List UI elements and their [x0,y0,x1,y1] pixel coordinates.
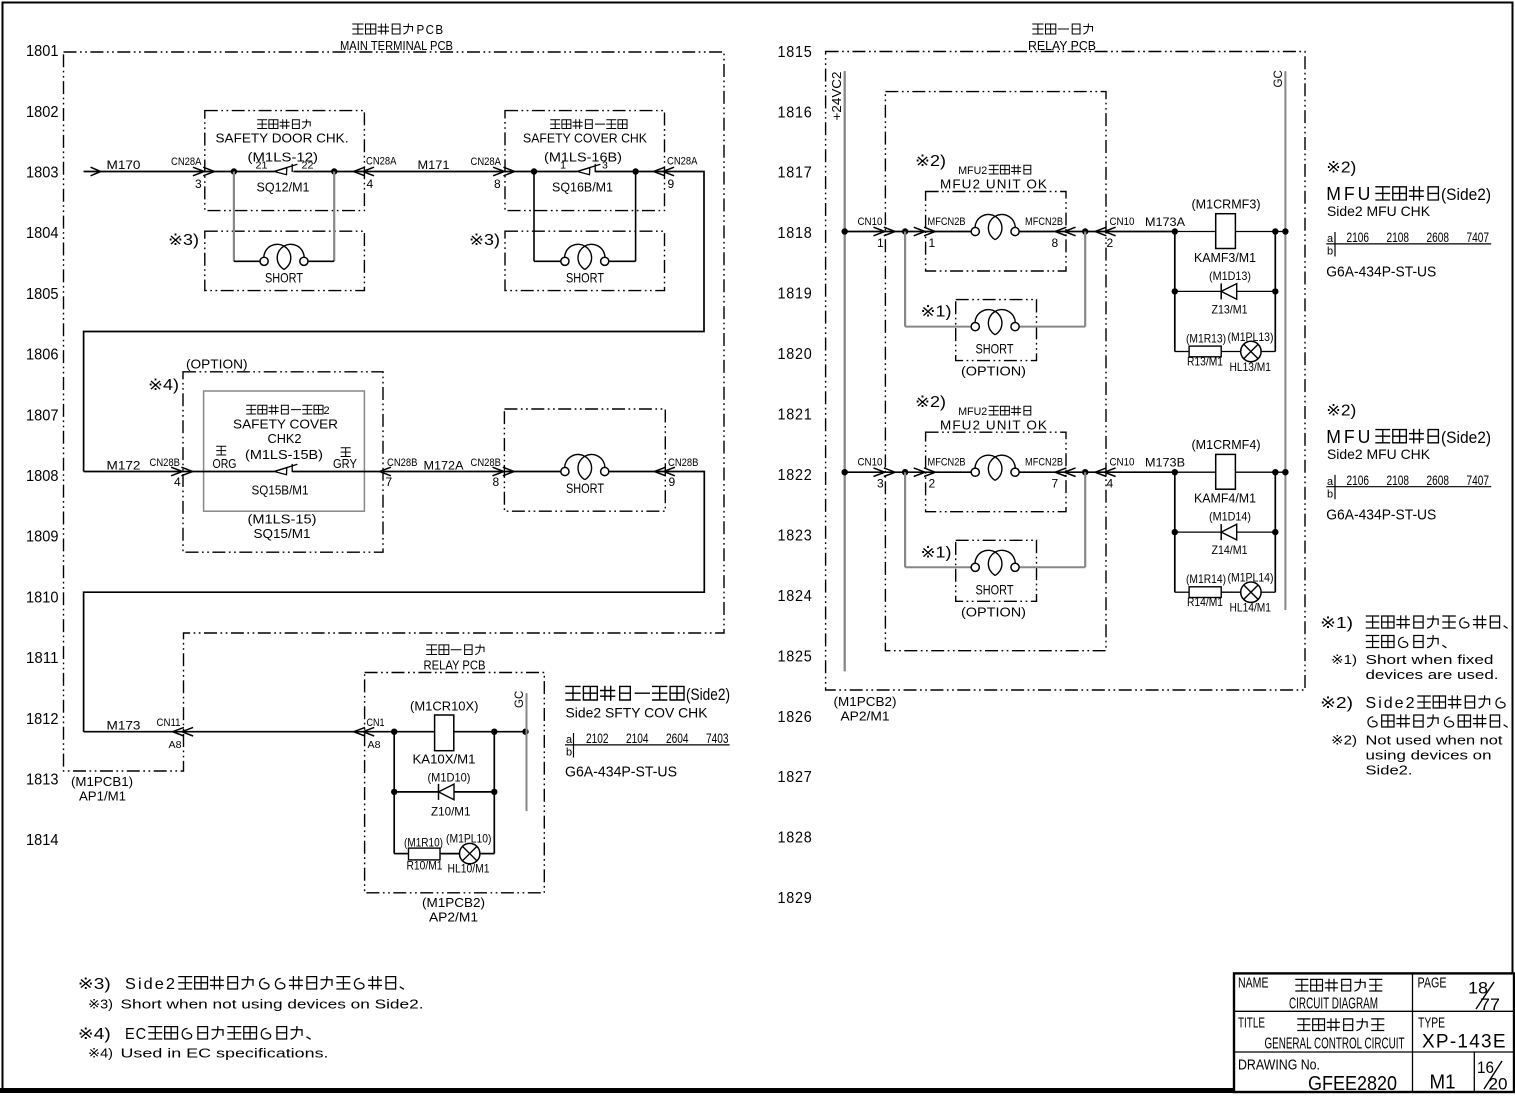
svg-text:※1): ※1) [921,304,952,321]
wire through SQ12 [205,171,274,173]
svg-text:M171: M171 [418,160,450,172]
svg-text:CN28B: CN28B [471,457,502,469]
svg-text:(M1PCB1): (M1PCB1) [71,775,133,789]
svg-text:Side2: Side2 [125,976,177,993]
resistor R13/M1 [1175,351,1189,353]
jumper wires SQ16B short [533,172,535,262]
svg-text:CN28B: CN28B [387,457,418,469]
svg-text:b: b [566,747,572,759]
wire M170 row 1803 [84,171,205,173]
svg-text:1826: 1826 [778,709,813,726]
svg-text:4: 4 [367,177,374,191]
diode Z13/M1 row [1175,290,1276,292]
svg-text:1816: 1816 [778,104,813,121]
svg-text:Short when fixed: Short when fixed [1366,652,1494,667]
safety cover chk box (M1LS-16B) [505,111,665,211]
svg-text:CN28A: CN28A [471,156,502,168]
svg-text:M170: M170 [107,160,141,172]
svg-text:GC: GC [514,691,526,708]
svg-text:NAME: NAME [1238,975,1269,992]
svg-text:Z14/M1: Z14/M1 [1212,543,1248,557]
svg-text:※4): ※4) [78,1026,111,1043]
svg-text:7407: 7407 [1467,472,1490,488]
svg-text:(Side2): (Side2) [1441,185,1491,204]
svg-text:(M1D13): (M1D13) [1209,269,1251,283]
svg-text:7: 7 [1052,477,1059,491]
svg-text:7403: 7403 [706,730,729,746]
svg-text:3: 3 [195,177,202,191]
svg-text:(OPTION): (OPTION) [186,358,248,372]
svg-text:9: 9 [669,475,676,489]
svg-text:1806: 1806 [26,347,59,364]
svg-text:※2): ※2) [915,394,946,411]
connector CN28A pin 9 [654,167,665,176]
svg-text:Used in EC specifications.: Used in EC specifications. [121,1046,329,1061]
svg-text:MFCN2B: MFCN2B [1025,457,1063,469]
svg-text:GENERAL CONTROL CIRCUIT: GENERAL CONTROL CIRCUIT [1265,1036,1405,1053]
jumper leads (gray) [904,232,906,327]
title block [1234,973,1514,1092]
svg-text:A8: A8 [368,739,381,751]
svg-text:AP1/M1: AP1/M1 [79,790,126,804]
node branch right [1272,469,1278,475]
svg-text:(M1D10): (M1D10) [428,771,471,785]
diode Z14/M1 row [1175,531,1276,533]
wire M173B [1106,471,1175,473]
svg-text:2608: 2608 [1427,229,1450,245]
connector CN28A pin 4 [354,167,365,176]
svg-text:devices are used.: devices are used. [1366,667,1499,682]
svg-text:CN1: CN1 [367,717,385,729]
svg-text:Short when not using devices o: Short when not using devices on Side2. [121,997,424,1012]
svg-text:a: a [566,734,573,746]
svg-text:(OPTION): (OPTION) [961,605,1026,619]
svg-text:G6A-434P-ST-US: G6A-434P-ST-US [1326,506,1436,523]
svg-text:1821: 1821 [778,407,813,424]
svg-text:MFCN2B: MFCN2B [928,457,966,469]
svg-text:21: 21 [256,160,268,172]
svg-text:※4): ※4) [148,377,179,394]
svg-text:MFU2: MFU2 [958,406,987,418]
svg-text:(M1PCB2): (M1PCB2) [422,896,485,910]
svg-text:※3): ※3) [78,976,111,993]
svg-text:CN10: CN10 [1110,216,1135,228]
svg-text:1815: 1815 [778,44,813,61]
svg-text:4: 4 [1107,477,1114,491]
svg-text:2: 2 [1107,236,1114,250]
wire M172 row 1808 [84,471,183,473]
GC bus (left relay) [526,693,528,811]
svg-text:PAGE: PAGE [1418,975,1447,992]
safety cover chk2 box (M1LS-15B) gray [204,391,365,511]
node SQ12 right junction [331,168,337,174]
SHORT jumper symbol (SQ16B) [561,257,569,265]
svg-text:※2): ※2) [1320,695,1353,712]
svg-text:(M1R13): (M1R13) [1186,332,1226,346]
svg-text:2106: 2106 [1347,229,1370,245]
wire M172A [383,471,504,473]
node MFU left branch [902,228,908,234]
svg-text:GC: GC [1273,70,1285,87]
connector CN10 pin 3 [874,468,885,477]
svg-text:3: 3 [602,160,608,172]
svg-text:1827: 1827 [778,769,813,786]
svg-text:EC: EC [125,1026,147,1043]
svg-text:Not used when not: Not used when not [1366,733,1503,748]
svg-text:MFU2 UNIT OK: MFU2 UNIT OK [940,178,1048,192]
node MFU left branch [902,469,908,475]
node branch left [1172,228,1178,234]
svg-text:77: 77 [1480,995,1500,1014]
svg-text:2: 2 [324,405,330,417]
svg-text:1807: 1807 [26,407,59,424]
wire CN10 row (M173B) [845,471,886,473]
node on GC bus [1282,469,1288,475]
MFU2 unit box [926,432,1066,512]
relay PCB header (left) [427,645,484,655]
svg-text:TITLE: TITLE [1238,1015,1265,1032]
svg-text:1803: 1803 [26,165,59,182]
svg-text:9: 9 [668,177,675,191]
svg-text:MFCN2B: MFCN2B [928,216,966,228]
svg-text:MFU2: MFU2 [958,165,987,177]
svg-text:1808: 1808 [26,468,59,485]
svg-text:(M1LS-15B): (M1LS-15B) [245,448,323,462]
svg-text:(M1CR10X): (M1CR10X) [410,699,479,714]
svg-text:(M1D14): (M1D14) [1209,510,1251,524]
svg-text:1809: 1809 [26,529,59,546]
svg-text:HL13/M1: HL13/M1 [1230,360,1272,374]
svg-text:TYPE: TYPE [1418,1015,1445,1032]
svg-text:1819: 1819 [778,286,813,303]
switch SQ12/M1 pins 21-22 [274,168,287,175]
MFU2 unit jumper symbol [926,231,972,233]
svg-text:2: 2 [929,477,936,491]
svg-text:GRY: GRY [333,457,358,471]
svg-text:R13/M1: R13/M1 [1187,355,1223,369]
svg-text:DRAWING No.: DRAWING No. [1238,1057,1320,1074]
svg-text:(M1LS-15): (M1LS-15) [248,513,317,527]
svg-text:1812: 1812 [26,711,59,728]
resistor R14/M1 [1175,591,1189,593]
svg-text:PCB: PCB [417,23,445,37]
svg-text:CN10: CN10 [1110,457,1135,469]
svg-text:1801: 1801 [26,43,59,60]
svg-text:※3): ※3) [168,232,199,249]
svg-text:using devices on: using devices on [1366,748,1492,763]
arrow into M170 [91,167,101,176]
svg-text:MFU2 UNIT OK: MFU2 UNIT OK [940,419,1048,433]
svg-text:2104: 2104 [626,730,649,746]
node on GC bus [522,729,528,735]
svg-text:Side2 MFU CHK: Side2 MFU CHK [1327,446,1431,462]
node branch left [1172,469,1178,475]
svg-text:8: 8 [493,475,500,489]
svg-text:1811: 1811 [26,650,59,667]
svg-text:HL10/M1: HL10/M1 [448,862,490,876]
svg-text:(M1CRMF4): (M1CRMF4) [1192,437,1261,452]
svg-text:SHORT: SHORT [566,270,604,286]
svg-text:M172A: M172A [424,461,464,473]
svg-text:(Side2): (Side2) [686,685,730,704]
switch SQ15B/M1 [274,468,287,475]
svg-text:CN10: CN10 [858,457,883,469]
svg-text:XP-143E: XP-143E [1422,1032,1506,1053]
svg-text:AP2/M1: AP2/M1 [429,911,478,925]
svg-text:※2): ※2) [1331,733,1357,748]
svg-text:20: 20 [1489,1075,1508,1094]
svg-text:7407: 7407 [1467,229,1490,245]
svg-text:1813: 1813 [26,772,59,789]
svg-text:SAFETY COVER CHK: SAFETY COVER CHK [523,132,648,146]
svg-text:SQ15/M1: SQ15/M1 [254,527,311,541]
wire through SQ16B [505,171,577,173]
connector CN10 pin 2 [1095,227,1106,236]
svg-text:1820: 1820 [778,346,813,363]
svg-text:CHK2: CHK2 [268,432,302,446]
svg-text:2102: 2102 [586,730,609,746]
svg-text:8: 8 [1052,236,1059,250]
main terminal PCB boundary (M1PCB1) [64,52,725,771]
switch SQ16B/M1 pins 1-3 [577,168,590,175]
svg-text:SHORT: SHORT [566,480,604,496]
connector CN28B pin 9 [654,467,665,476]
svg-text:Z13/M1: Z13/M1 [1212,302,1248,316]
svg-text:CIRCUIT DIAGRAM: CIRCUIT DIAGRAM [1289,996,1378,1013]
svg-text:KAMF4/M1: KAMF4/M1 [1194,491,1256,506]
svg-text:MFU: MFU [1326,184,1373,204]
wire row1803 pin9 to row1808 M172 (L path) [84,172,704,472]
svg-text:2604: 2604 [666,730,689,746]
MFU2 unit box [926,192,1066,272]
wire M173A [1106,231,1175,233]
svg-text:2108: 2108 [1387,472,1410,488]
svg-text:7: 7 [386,475,393,489]
svg-text:A8: A8 [169,739,182,751]
diode Z10/M1 row [394,791,494,793]
svg-text:CN10: CN10 [858,216,883,228]
svg-text:Z10/M1: Z10/M1 [431,805,471,819]
svg-text:(M1PCB2): (M1PCB2) [834,695,897,709]
node branch right [491,729,497,735]
safety door chk box (M1LS-12) [205,111,365,211]
node SQ16B right junction [632,168,638,174]
svg-text:1: 1 [560,160,566,172]
SHORT jumper symbol (option) [971,563,979,571]
svg-text:CN28B: CN28B [150,457,181,469]
svg-text:M173A: M173A [1145,217,1185,229]
svg-text:M173: M173 [107,721,141,733]
node MFU right branch [1082,469,1088,475]
svg-text:1825: 1825 [778,648,813,665]
svg-text:CN11: CN11 [157,717,181,729]
GC bus (right relay) [1284,71,1286,610]
svg-text:Side2.: Side2. [1366,763,1413,778]
svg-text:R10/M1: R10/M1 [407,859,443,873]
svg-text:(M1CRMF3): (M1CRMF3) [1192,197,1261,212]
svg-text:Side2 SFTY COV CHK: Side2 SFTY COV CHK [566,705,709,721]
svg-text:1802: 1802 [26,104,59,121]
node branch left [391,729,397,735]
svg-text:CN28A: CN28A [366,156,397,168]
connector CN28B pin 7 [380,467,391,476]
MFU2 unit jumper symbol [926,471,972,473]
SHORT jumper symbol (M172A) [561,467,569,475]
svg-text:※1): ※1) [921,544,952,561]
svg-text:2106: 2106 [1347,472,1370,488]
svg-text:※1): ※1) [1320,615,1353,632]
svg-text:SQ15B/M1: SQ15B/M1 [252,484,309,498]
node SQ16B left junction [531,168,537,174]
svg-text:1818: 1818 [778,225,813,242]
svg-text:1829: 1829 [778,890,813,907]
svg-text:※2): ※2) [1326,402,1356,419]
svg-text:1823: 1823 [778,527,813,544]
connector CN10 pin 1 [874,227,885,236]
svg-text:+24VC2: +24VC2 [830,71,844,120]
svg-text:4: 4 [174,475,181,489]
svg-text:※3): ※3) [88,997,113,1012]
svg-text:1: 1 [929,236,936,250]
jumper leads (gray) [904,472,906,567]
relay PCB header (right) [1033,24,1093,34]
svg-text:G6A-434P-ST-US: G6A-434P-ST-US [565,764,677,781]
svg-text:ORG: ORG [213,457,237,471]
node branch right [1272,228,1278,234]
svg-text:KAMF3/M1: KAMF3/M1 [1194,250,1256,265]
branch verticals [1174,232,1176,352]
svg-text:HL14/M1: HL14/M1 [1230,601,1272,615]
svg-text:1805: 1805 [26,286,59,303]
+24VC2 bus [844,71,846,671]
svg-text:M1: M1 [1430,1072,1456,1094]
svg-text:KA10X/M1: KA10X/M1 [413,752,476,767]
wire M171 [364,171,505,173]
SHORT jumper symbol (SQ12) [260,257,268,265]
svg-text:2108: 2108 [1387,229,1410,245]
Side2 SFTY COV CHK note block [566,686,684,700]
main terminal PCB header [353,24,413,34]
svg-text:Side2: Side2 [1366,695,1417,712]
svg-text:(OPTION): (OPTION) [961,365,1026,379]
svg-text:MFCN2B: MFCN2B [1025,216,1063,228]
relay PCB boundary (right) [826,52,1305,691]
branch verticals [1174,472,1176,592]
svg-text:b: b [1327,246,1333,258]
svg-text:SQ12/M1: SQ12/M1 [257,181,310,195]
svg-text:CN28A: CN28A [171,156,202,168]
short box row 1808 [504,409,665,511]
svg-text:※4): ※4) [88,1046,113,1061]
svg-text:1822: 1822 [778,467,813,484]
svg-text:1814: 1814 [26,832,59,849]
svg-text:b: b [1327,488,1333,500]
svg-text:3: 3 [877,477,884,491]
svg-text:M172: M172 [107,461,141,473]
node SQ12 left junction [231,168,237,174]
svg-text:MAIN TERMINAL PCB: MAIN TERMINAL PCB [340,39,453,53]
svg-text:22: 22 [302,160,314,172]
svg-text:1817: 1817 [778,165,813,182]
svg-text:G6A-434P-ST-US: G6A-434P-ST-US [1326,264,1436,281]
svg-text:SAFETY COVER: SAFETY COVER [233,418,338,432]
svg-text:a: a [1327,233,1334,245]
svg-text:※3): ※3) [469,232,500,249]
svg-text:a: a [1327,476,1334,488]
svg-text:CN28B: CN28B [668,457,699,469]
node on +24VC2 bus [842,469,848,475]
svg-text:※2): ※2) [1326,160,1356,177]
svg-text:R14/M1: R14/M1 [1187,595,1223,609]
svg-text:(Side2): (Side2) [1441,428,1491,447]
relay PCB boundary box (M1PCB2 left) [365,673,545,893]
svg-text:CN28A: CN28A [667,156,698,168]
svg-text:SHORT: SHORT [265,270,303,286]
wire CN10 row (M173A) [845,231,886,233]
svg-text:SAFETY DOOR CHK.: SAFETY DOOR CHK. [216,132,349,146]
svg-text:M173B: M173B [1145,458,1185,470]
svg-text:(M1R14): (M1R14) [1186,572,1226,586]
svg-text:SHORT: SHORT [976,341,1014,357]
branch verticals [393,732,395,854]
svg-text:1810: 1810 [26,589,59,606]
svg-text:AP2/M1: AP2/M1 [841,710,890,724]
svg-text:1828: 1828 [778,830,813,847]
svg-text:1: 1 [877,236,884,250]
svg-text:※1): ※1) [1331,652,1357,667]
jumper wires SQ12 short [233,172,235,262]
svg-text:1804: 1804 [26,225,59,242]
group box *2 MFU sections [885,92,1106,651]
svg-text:(M1LS-16B): (M1LS-16B) [544,151,622,165]
wire M173 [84,731,365,733]
wire row1808 pin9 to row1812 M173 (L path) [84,472,705,732]
node on GC bus [1282,228,1288,234]
svg-text:MFU: MFU [1326,427,1373,447]
node MFU right branch [1082,228,1088,234]
SHORT jumper symbol (option) [971,323,979,331]
svg-text:SQ16B/M1: SQ16B/M1 [552,181,613,195]
connector CN10 pin 4 [1095,468,1106,477]
svg-text:1824: 1824 [778,588,813,605]
svg-text:2608: 2608 [1427,472,1450,488]
svg-text:8: 8 [494,177,501,191]
node on +24VC2 bus [842,228,848,234]
svg-text:SHORT: SHORT [976,581,1014,597]
wire CN1 to GC bus [365,731,527,733]
svg-text:※2): ※2) [915,153,946,170]
svg-text:RELAY PCB: RELAY PCB [424,659,486,673]
svg-text:Side2 MFU CHK: Side2 MFU CHK [1327,203,1431,219]
wire into SQ15B [183,471,274,473]
svg-text:GFEE2820: GFEE2820 [1308,1073,1397,1094]
